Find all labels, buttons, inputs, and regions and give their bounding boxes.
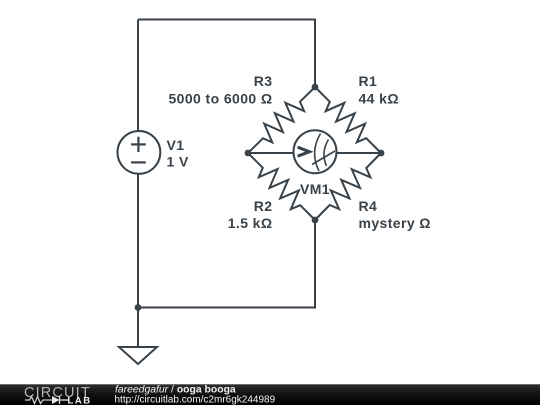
svg-text:mystery Ω: mystery Ω [359,215,431,231]
svg-text:1.5 kΩ: 1.5 kΩ [228,215,273,231]
svg-text:V1: V1 [167,137,185,153]
svg-text:VM1: VM1 [300,181,330,197]
svg-text:R2: R2 [254,198,273,214]
svg-text:44 kΩ: 44 kΩ [359,91,399,107]
svg-text:LAB: LAB [68,396,92,406]
svg-text:1 V: 1 V [167,154,189,170]
svg-text:5000 to 6000 Ω: 5000 to 6000 Ω [169,91,273,107]
svg-text:http://circuitlab.com/c2mr6gk2: http://circuitlab.com/c2mr6gk244989 [115,395,276,406]
svg-text:R4: R4 [359,198,378,214]
svg-text:R1: R1 [359,73,378,89]
svg-text:R3: R3 [254,73,273,89]
